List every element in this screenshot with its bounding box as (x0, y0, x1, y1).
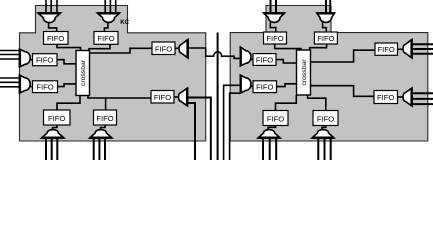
svg-text:FIFO: FIFO (256, 83, 273, 92)
demux D8 (south output, router R2) (312, 130, 334, 138)
wire FIFO F6 to demux D2 (174, 96, 181, 98)
wire M1 to FIFO F1 (49, 23, 57, 32)
wire FIFO F1 to crossbar U1 (57, 44, 81, 50)
wire FIFO F9 to crossbar U2 (276, 60, 297, 63)
wire crossbar U1 bottom port to FIFO F7 (57, 96, 80, 111)
FIFO F11 (north, router R2) (264, 32, 287, 44)
FIFO F10 (west, router R2) (253, 81, 277, 93)
svg-text:FIFO: FIFO (267, 114, 284, 123)
wire link demux D1 to mux M7 with hop over net V3 (188, 48, 240, 58)
mux M8 (west input, router R2) (240, 75, 251, 93)
FIFO F4 (west, router R1) (33, 81, 58, 93)
svg-text:KC: KC (120, 19, 129, 26)
router R2 block (230, 6, 428, 142)
wire crossbar U1 to FIFO F6 east (88, 96, 151, 99)
FIFO F1 (north, router R1) (44, 32, 69, 45)
wire FIFO F13 to demux D5 (398, 48, 405, 50)
wire FIFO F4 to crossbar U1 (58, 84, 77, 87)
wire FIFO F2 to crossbar U1 (89, 44, 110, 50)
mux M5 (north input, router R2) (264, 13, 285, 22)
wire west input bundle of mux M3 (0, 51, 20, 60)
svg-text:FIFO: FIFO (266, 34, 283, 43)
FIFO F14 (east, router R2) (374, 91, 398, 104)
mux M3 (west input, router R1) (20, 49, 31, 67)
wire demux D2 output B to south (188, 103, 196, 160)
mux M6 (north input, router R2) (317, 13, 335, 22)
wire M4 to FIFO F4 (30, 86, 33, 88)
FIFO F6 (east, router R1) (151, 91, 174, 104)
wire FIFO F15 to demux D7 (268, 126, 275, 131)
wire crossbar U2 bottom port to FIFO F15 (276, 95, 297, 111)
wire demux D2 output A to south (188, 98, 211, 161)
svg-text:FIFO: FIFO (317, 34, 334, 43)
wire north input bundle of mux M6 (326, 0, 330, 13)
demux D1 (east output, router R1) (179, 40, 188, 59)
wire FIFO F11 to crossbar U2 (275, 44, 301, 50)
wire crossbar U2 bottom port to FIFO F16 (308, 95, 326, 111)
svg-text:FIFO: FIFO (317, 114, 334, 123)
demux D6 (east output, router R2) (403, 88, 412, 106)
mux M2 (north input, router R1) (97, 13, 119, 22)
wire FIFO F10 to crossbar U2 (277, 84, 297, 87)
wire M5 to FIFO F11 (270, 23, 276, 33)
wire north input bundle of mux M5 (271, 0, 277, 13)
FIFO F12 (north, router R2) (314, 32, 337, 44)
wire M6 to FIFO F12 (323, 23, 327, 33)
crossbar U2 (router R2) (297, 50, 311, 95)
wire crossbar U1 to FIFO F5 (90, 48, 153, 53)
wire vertical link net V3 (pass-through) (217, 33, 219, 161)
wire west input bundle of mux M4 (0, 78, 20, 87)
demux D5 (east output, router R2) (403, 40, 412, 59)
wire crossbar U2 to FIFO F13 (311, 50, 376, 62)
crossbar U1 (router R1) (76, 51, 90, 96)
wire south output bundle of demux D7 (263, 138, 276, 160)
wire vertical link net V4 from south to mux M8 (224, 85, 241, 160)
wire FIFO F7 to demux D3 (53, 125, 58, 130)
wire south output bundle of demux D8 (318, 138, 330, 160)
demux D2 (south-east output, router R1) (179, 88, 188, 106)
demux D7 (south output, router R2) (258, 130, 280, 138)
wire east output bundle of demux D6 (412, 93, 433, 104)
wire FIFO F12 to crossbar U2 (310, 44, 327, 50)
wire M2 to FIFO F2 (104, 23, 108, 32)
router R1 block (20, 6, 206, 142)
wire south output bundle of demux D4 (94, 138, 105, 160)
wire vertical link net V5 from south to mux M8 (230, 93, 241, 160)
wire east output bundle of demux D5 (412, 44, 433, 53)
svg-text:FIFO: FIFO (378, 45, 395, 54)
wire FIFO F5 to demux D1 (175, 47, 181, 49)
mux M1 (north input, router R1) (38, 13, 61, 23)
svg-text:FIFO: FIFO (48, 114, 65, 123)
wire FIFO F16 to demux D8 (322, 126, 326, 131)
mux M4 (west input, router R1) (20, 75, 31, 93)
wire M8 to FIFO F10 (250, 85, 253, 87)
svg-text:FIFO: FIFO (97, 34, 114, 43)
svg-text:FIFO: FIFO (36, 56, 53, 65)
wire FIFO F14 to demux D6 (398, 96, 405, 98)
svg-text:crossbar: crossbar (80, 59, 87, 86)
svg-text:FIFO: FIFO (96, 114, 113, 123)
wire branch to FIFO F8 bottom (105, 98, 107, 110)
FIFO F5 (east, router R1) (152, 42, 175, 55)
svg-text:FIFO: FIFO (36, 83, 53, 92)
demux D3 (south output, router R1) (42, 130, 65, 138)
wire crossbar U2 to FIFO F14 (311, 86, 375, 97)
svg-text:FIFO: FIFO (155, 44, 172, 53)
demux D4 (south output, router R1) (90, 130, 112, 138)
FIFO F15 (south, router R2) (263, 111, 288, 126)
FIFO F3 (west, router R1) (33, 54, 58, 66)
wire north input bundle of mux M2 (105, 0, 116, 13)
svg-text:crossbar: crossbar (301, 59, 308, 86)
wire north input bundle of mux M1 (46, 0, 57, 13)
wire FIFO F8 to demux D4 (101, 125, 106, 130)
wire M3 to FIFO F3 (30, 59, 33, 61)
svg-text:FIFO: FIFO (256, 56, 273, 65)
FIFO F9 (west, router R2) (253, 54, 276, 66)
svg-text:FIFO: FIFO (154, 93, 171, 102)
FIFO F8 (south, router R1) (94, 110, 117, 125)
svg-text:FIFO: FIFO (377, 93, 394, 102)
FIFO F7 (south, router R1) (44, 110, 71, 125)
FIFO F16 (south, router R2) (313, 111, 338, 126)
wire south output bundle of demux D3 (46, 138, 57, 160)
wire FIFO F3 to crossbar U1 (57, 60, 76, 64)
svg-text:FIFO: FIFO (47, 34, 64, 43)
wire M7 to FIFO F9 (250, 59, 253, 61)
FIFO F2 (north, router R1) (94, 32, 118, 45)
mux M7 (west input, router R2) (240, 47, 251, 66)
FIFO F13 (east, router R2) (375, 43, 398, 55)
